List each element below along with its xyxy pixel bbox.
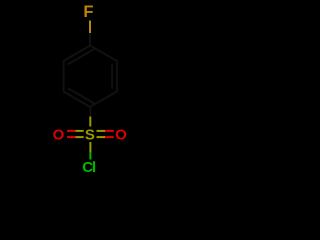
svg-text:O: O <box>115 126 127 143</box>
bond S-Cl (sulfur half, olive) <box>89 142 91 152</box>
svg-text:C: C <box>82 159 93 176</box>
bond F-C1 (carbon half, near-black) <box>89 33 91 46</box>
double bond S=O right, upper bar <box>97 130 106 132</box>
svg-text:O: O <box>53 126 65 143</box>
double bond S=O left, lower bar <box>67 136 76 138</box>
bond S-Cl (chlorine half, green) <box>89 152 91 160</box>
svg-text:F: F <box>83 3 93 21</box>
bond F-C1 (fluorine half, gold) <box>89 21 91 34</box>
bond C4-S (carbon half, near-black) <box>89 107 91 117</box>
double bond S=O left, upper bar <box>67 130 76 132</box>
bond C4-S (sulfur half, olive) <box>89 117 91 127</box>
svg-text:S: S <box>85 126 95 143</box>
double bond S=O right, lower bar <box>97 136 106 138</box>
benzene ring C1-C6 (carbon bonds, near-black) <box>64 46 117 108</box>
